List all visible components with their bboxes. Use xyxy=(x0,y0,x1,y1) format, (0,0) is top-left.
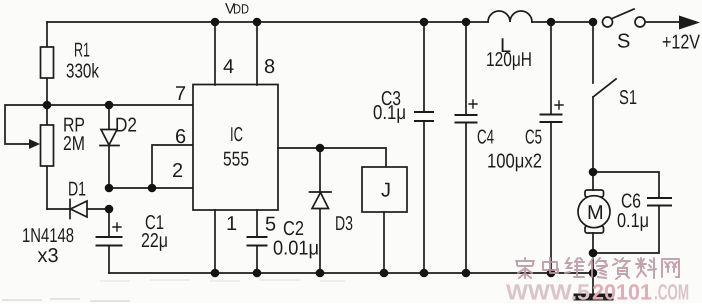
watermark char 电 xyxy=(543,258,558,273)
watermark WWW.520101.COM xyxy=(506,280,689,305)
svg-text:2M: 2M xyxy=(63,133,85,155)
node D1 C1 junction xyxy=(105,205,114,214)
diode D2 xyxy=(100,105,119,188)
svg-text:6: 6 xyxy=(175,126,186,148)
diode D1 xyxy=(47,200,109,219)
svg-text:20101: 20101 xyxy=(592,280,652,304)
svg-text:4: 4 xyxy=(223,56,234,78)
potentiometer RP xyxy=(5,105,54,209)
svg-text:2: 2 xyxy=(172,160,183,182)
svg-text:D3: D3 xyxy=(335,213,353,235)
node R1/RP junction xyxy=(43,101,52,110)
wire pin8 xyxy=(256,22,258,85)
watermark char 维 xyxy=(565,258,584,277)
wire motor to ground xyxy=(592,253,594,294)
wire pin5 xyxy=(256,210,258,237)
node pin6 drop xyxy=(148,184,157,193)
svg-text:DD: DD xyxy=(233,2,249,17)
svg-text:J: J xyxy=(381,180,391,202)
watermark char 资 xyxy=(613,258,630,279)
node D2 bottom pin2 xyxy=(105,184,114,193)
watermark char 网 xyxy=(662,259,679,277)
node J ground xyxy=(380,269,389,278)
svg-text:IC: IC xyxy=(230,124,243,146)
node C5 top xyxy=(547,18,556,27)
svg-text:.COM: .COM xyxy=(654,280,689,304)
svg-text:7: 7 xyxy=(175,83,186,105)
capacitor C5 xyxy=(541,22,564,273)
wire pin4 xyxy=(214,22,216,85)
svg-text:100μx2: 100μx2 xyxy=(487,151,542,173)
svg-text:D2: D2 xyxy=(115,115,137,137)
watermark char 料 xyxy=(636,258,656,278)
svg-text:0.01μ: 0.01μ xyxy=(273,238,319,260)
node pin8 on VDD rail xyxy=(253,18,262,27)
capacitor C4 xyxy=(456,22,478,273)
svg-text:0.1μ: 0.1μ xyxy=(617,210,649,232)
motor M xyxy=(578,172,610,253)
node D2 top xyxy=(105,101,114,110)
svg-text:C5: C5 xyxy=(525,127,542,149)
node D3 ground xyxy=(316,269,325,278)
svg-text:555: 555 xyxy=(223,149,249,171)
wire pin1 xyxy=(214,210,216,273)
svg-text:1N4148: 1N4148 xyxy=(22,225,74,247)
node pin1 ground xyxy=(211,269,220,278)
capacitor C2 xyxy=(248,237,267,273)
svg-text:R1: R1 xyxy=(74,40,90,62)
switch S1 xyxy=(593,22,616,172)
svg-text:WWW.5: WWW.5 xyxy=(506,280,590,304)
wire bottom ground rail xyxy=(109,272,593,274)
inductor L xyxy=(488,11,532,22)
svg-text:120μH: 120μH xyxy=(486,49,532,71)
svg-text:D1: D1 xyxy=(68,179,86,201)
watermark chinese characters 家电维修资料网 xyxy=(516,258,679,279)
svg-text:M: M xyxy=(587,202,604,224)
node D3 top xyxy=(316,144,325,153)
node pin4 on VDD rail xyxy=(211,18,220,27)
wire pin3 output xyxy=(278,148,386,167)
node C3 top xyxy=(420,18,429,27)
node C3 ground xyxy=(420,269,429,278)
svg-text:+12V: +12V xyxy=(662,32,701,54)
op-amp/timer IC U1 555 xyxy=(193,85,278,211)
wire pin7 horizontal xyxy=(47,104,193,106)
wire top rail VDD xyxy=(47,21,593,23)
svg-text:1: 1 xyxy=(226,213,237,235)
node motor top xyxy=(589,168,598,177)
svg-text:330k: 330k xyxy=(66,61,100,83)
node motor bottom C6 xyxy=(589,249,598,258)
scan artifact smudge bottom left xyxy=(2,280,345,301)
svg-text:C4: C4 xyxy=(477,127,494,149)
resistor R1 xyxy=(41,22,54,105)
node C4 ground xyxy=(462,269,471,278)
capacitor C6 xyxy=(593,172,671,253)
svg-text:5: 5 xyxy=(265,214,276,236)
wire pin2 horizontal xyxy=(109,187,193,189)
switch S xyxy=(603,9,680,27)
node motor ground rail xyxy=(589,269,598,278)
node C5 ground xyxy=(547,269,556,278)
svg-text:0.1μ: 0.1μ xyxy=(373,102,406,124)
svg-text:x3: x3 xyxy=(38,245,59,267)
svg-text:S1: S1 xyxy=(619,87,637,109)
svg-text:S: S xyxy=(617,31,630,53)
capacitor C1 xyxy=(97,209,122,273)
svg-text:8: 8 xyxy=(264,56,275,78)
arrow to +12V xyxy=(679,16,700,30)
diode D3 xyxy=(310,148,332,273)
node C2 ground xyxy=(253,269,262,278)
capacitor C3 xyxy=(415,22,433,273)
node C4 top xyxy=(462,18,471,27)
wire pin6 stub xyxy=(152,145,193,188)
watermark char 修 xyxy=(589,258,607,278)
svg-text:22μ: 22μ xyxy=(141,230,168,252)
ground xyxy=(577,294,610,301)
node S input xyxy=(589,18,598,27)
watermark char 家 xyxy=(516,258,534,278)
relay J xyxy=(362,167,407,273)
